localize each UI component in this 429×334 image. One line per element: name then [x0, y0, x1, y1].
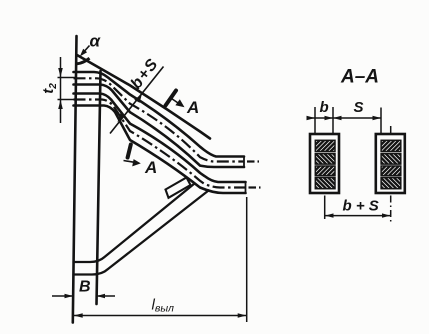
wire leaf line L1 [74, 72, 245, 157]
svg-text:A: A [144, 158, 157, 177]
extension line left stack center [324, 196, 326, 220]
section right stack outer rect [376, 134, 405, 193]
arrowhead S right [373, 116, 382, 120]
hatched leaf block 8 [370, 176, 418, 189]
arrowhead l_vyl left [74, 313, 83, 318]
hatched leaf block 3 [306, 164, 348, 176]
section left stack outer rect [310, 134, 339, 193]
arrowhead b outside left [307, 116, 316, 120]
svg-text:A–A: A–A [340, 67, 379, 88]
dimension line b and S [309, 117, 382, 119]
tick t2 top [58, 77, 77, 79]
svg-text:S: S [354, 99, 364, 116]
leader arrow alpha [82, 46, 90, 55]
centerline band 1 [74, 78, 245, 161]
centerline right stack below [390, 196, 392, 223]
tick t2 bottom [58, 99, 77, 101]
hatched leaf block 5 [370, 138, 418, 151]
dimension line l_vyl [73, 315, 246, 317]
extension line b right / S left [332, 107, 334, 134]
hatched leaf block 7 [372, 164, 414, 176]
wire leaf line L3 [74, 85, 245, 168]
svg-text:B: B [79, 279, 91, 296]
arrowhead b+S section left [325, 213, 334, 217]
section cut mark top [166, 91, 177, 106]
centerline band 1 tail dot [258, 160, 260, 162]
svg-text:b + S: b + S [343, 198, 379, 215]
arrowhead b right inner [325, 116, 334, 120]
angle arc alpha [77, 58, 90, 64]
hatched leaf block 6 [371, 152, 414, 165]
centerline band 2 [74, 100, 246, 188]
hatched leaf block 2 [305, 152, 348, 165]
arrowhead b+S section right [382, 213, 390, 217]
band 2 end cap [245, 181, 247, 194]
band 1 end cap [243, 156, 245, 169]
arrowhead b+S lower [118, 113, 126, 122]
arrowhead B left [65, 294, 74, 299]
dimension line B right tail [98, 295, 116, 297]
gusset upper line [74, 184, 195, 263]
wire top leaf edge (hypotenuse) [77, 55, 210, 139]
arrowhead b+S upper [134, 94, 142, 103]
dimension line b+S diagonal [110, 67, 164, 134]
gusset lower line [74, 191, 209, 275]
hatched leaf block 1 [304, 138, 352, 151]
arrowhead t2 down [58, 68, 63, 77]
arrowhead B right [97, 294, 106, 299]
wire post left line [73, 36, 77, 323]
centerline band 1 tail dash [247, 160, 255, 162]
centerline band 2 tail dot [259, 186, 261, 188]
rib tab plate [166, 178, 191, 198]
wire leaf line L4 [74, 94, 246, 183]
wire leaf line L6 [74, 106, 246, 194]
svg-text:A: A [186, 98, 199, 117]
arrowhead t2 up [58, 100, 63, 109]
wire post right line [97, 71, 101, 304]
dimension line b+S section [325, 215, 391, 217]
section cut mark bottom [128, 145, 131, 158]
arrowhead shared middle [333, 116, 342, 120]
centerline right stack above [390, 126, 392, 133]
extension line S right [380, 108, 382, 134]
extension line b left [314, 107, 316, 134]
centerline band 2 tail dash [249, 186, 257, 188]
dimension line B left tail [52, 295, 72, 297]
svg-text:α: α [90, 32, 102, 51]
hatched leaf block 4 [304, 176, 352, 189]
svg-text:b: b [320, 99, 329, 116]
arrowhead l_vyl right [238, 313, 247, 318]
extension line right (l_vyl) [246, 197, 248, 322]
dimension line t2 [60, 57, 62, 123]
